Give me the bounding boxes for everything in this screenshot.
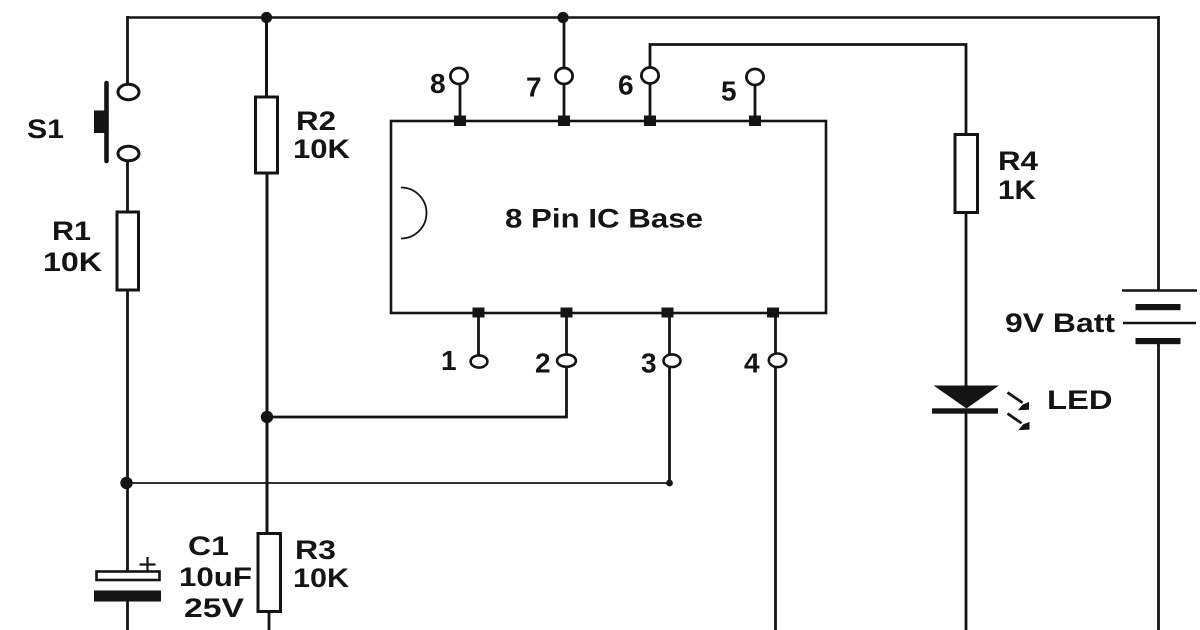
svg-text:1K: 1K	[998, 175, 1037, 205]
svg-text:8: 8	[430, 68, 446, 99]
wire pin3 net to left column	[127, 482, 670, 484]
label R3 10K	[293, 535, 350, 593]
wire R2 column top	[265, 16, 268, 98]
resistor R4	[955, 135, 978, 213]
svg-text:9V Batt: 9V Batt	[1005, 308, 1115, 338]
resistor R1	[117, 212, 139, 290]
LED diode	[932, 386, 999, 414]
svg-text:R4: R4	[998, 146, 1038, 176]
label R1 10K	[43, 216, 103, 277]
svg-text:S1: S1	[27, 114, 64, 144]
pin 3	[641, 308, 681, 379]
capacitor C1	[94, 557, 161, 602]
svg-text:C1: C1	[188, 531, 229, 561]
wire R2 to R3	[266, 173, 269, 534]
switch S1	[94, 83, 139, 161]
resistor R2	[256, 97, 278, 173]
junction node top rail / R2	[261, 12, 272, 23]
pin 1	[441, 308, 487, 377]
wire right column bottom	[1157, 344, 1160, 630]
wire right column top	[1157, 16, 1160, 291]
wire S1 to R1	[126, 161, 129, 214]
junction node pin3 corner	[666, 480, 673, 487]
pin 4	[744, 308, 786, 379]
pin 7	[526, 17, 573, 126]
pin 8	[430, 68, 468, 126]
svg-text:10K: 10K	[293, 134, 351, 164]
resistor R3	[258, 534, 281, 612]
svg-text:5: 5	[721, 76, 737, 107]
label R2 10K	[293, 106, 351, 164]
svg-text:7: 7	[526, 72, 542, 103]
svg-text:3: 3	[641, 348, 657, 379]
wire pin4 down	[774, 367, 777, 630]
battery BT1 9V	[1122, 291, 1197, 345]
svg-text:10K: 10K	[293, 563, 350, 593]
wire R3 down	[268, 611, 271, 630]
pin 6 and wire to R4	[618, 45, 966, 136]
junction node top rail / pin7	[557, 12, 568, 23]
wire left column top	[126, 16, 129, 85]
svg-text:1: 1	[441, 345, 457, 376]
label C1 10uF 25V	[179, 531, 252, 623]
svg-text:6: 6	[618, 70, 634, 101]
svg-text:R3: R3	[295, 535, 336, 565]
IC notch	[401, 188, 427, 239]
svg-text:R1: R1	[52, 216, 91, 246]
pin 5	[721, 69, 764, 126]
wire C1 down	[126, 601, 129, 630]
label R4 1K	[998, 146, 1038, 205]
svg-text:25V: 25V	[184, 593, 244, 623]
svg-text:4: 4	[744, 348, 760, 379]
svg-text:10K: 10K	[43, 247, 103, 277]
wire pin2 net to R2R3 column	[266, 367, 567, 418]
svg-text:10uF: 10uF	[179, 562, 252, 592]
svg-text:R2: R2	[296, 106, 336, 136]
svg-text:8 Pin IC Base: 8 Pin IC Base	[505, 204, 703, 234]
pin 2	[535, 308, 576, 379]
wire R1 down to C1	[126, 290, 129, 572]
junction node left column / pin3 net	[120, 477, 132, 489]
svg-text:LED: LED	[1047, 385, 1113, 415]
LED light arrows	[1008, 393, 1030, 431]
wire top rail	[127, 16, 1159, 19]
svg-text:2: 2	[535, 348, 551, 379]
wire LED down	[965, 413, 968, 630]
junction node R2R3 column / pin2 net	[261, 411, 273, 423]
wire pin3 down	[668, 367, 671, 484]
wire R4 to LED	[965, 212, 968, 386]
IC socket U1 body	[391, 121, 826, 313]
